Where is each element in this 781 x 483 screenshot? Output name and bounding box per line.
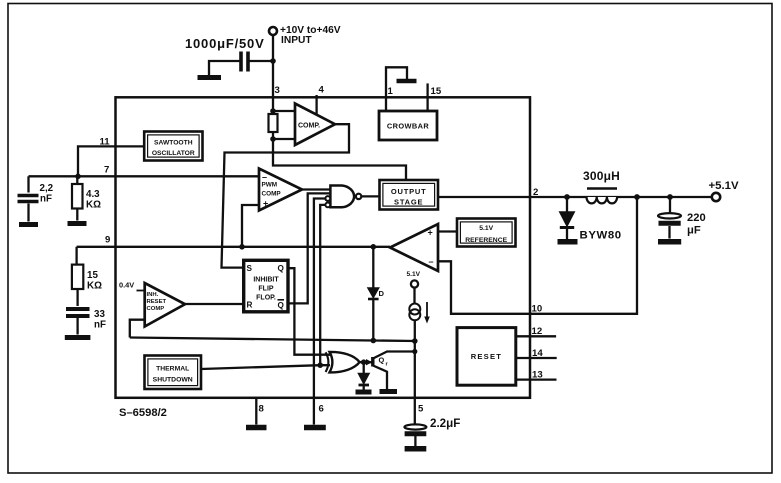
label INH RESET COMP [147,292,167,312]
IC boundary box [116,97,531,398]
output stage box (double border) [380,180,439,210]
svg-text:FLIP: FLIP [258,286,273,293]
svg-text:SAWTOOTH: SAWTOOTH [154,139,193,146]
wire pin 1 riser [386,67,407,111]
svg-text:D: D [379,289,385,298]
wire NAND input 3 to pin 6 ground rail [314,199,326,425]
wire pin 4 [315,95,317,114]
terminal +5.1V output [712,193,720,201]
transistor Q_r [369,361,373,363]
ground (2.2nF) [19,222,38,227]
wire COMP output to flip-flop S [222,124,350,267]
svg-text:–: – [262,172,267,182]
label 5.1V (current source) [407,271,421,278]
reset box [457,328,516,386]
svg-text:Q: Q [278,264,285,273]
svg-text:8: 8 [259,404,265,415]
pin 14 [532,348,543,359]
capacitor C3 2.2uF [404,424,426,429]
diode BYW80 [566,197,568,212]
terminal 5.1V internal [411,280,418,287]
label S-6598/2 [119,407,167,419]
svg-text:COMP.: COMP. [298,123,320,130]
node soft-start/current-source junction [412,338,418,344]
node BYW80 junction [564,194,570,200]
pin 7 [104,165,109,176]
svg-text:KΩ: KΩ [87,281,102,292]
label +10V to +46V INPUT [280,25,341,46]
svg-text:14: 14 [532,348,543,359]
pin 2 [533,187,538,198]
op-amp PWM COMP [259,169,302,211]
label THERMAL SHUTDOWN [153,366,193,384]
node error amp output / diode D junction [371,244,377,250]
resistor R1 4.3Kohm [76,176,78,184]
node pin3 upper junction [270,108,276,114]
svg-text:5.1V: 5.1V [479,225,493,232]
wire 5.1V to current source [413,288,415,305]
node diode D / soft-start junction [371,338,377,344]
resistor Rs (current sense on pin 3) [269,114,278,132]
inductor L1 300uH [587,187,617,190]
ground (pin 8) [246,425,267,431]
node Q_r collector junction [412,349,417,354]
svg-text:1: 1 [388,86,394,97]
ground (input cap) [198,75,222,80]
label SAWTOOTH OSCILLATOR [152,139,195,157]
pin 3 [275,85,280,96]
svg-text:INH.: INH. [147,292,159,298]
svg-text:+: + [428,227,433,237]
resistor R2 15Kohm [75,247,77,265]
label COMP [298,123,320,130]
thermal shutdown box (double border) [145,356,202,390]
svg-text:Q: Q [379,356,385,365]
svg-text:COMP: COMP [262,190,282,197]
value 300uH [583,169,620,183]
pin 15 [431,86,442,97]
svg-text:7: 7 [104,165,109,176]
svg-text:0.4V: 0.4V [119,281,134,290]
capacitor C2 33nF [76,289,78,306]
svg-text:5: 5 [418,404,424,415]
wire riser to PWM + input [242,205,259,247]
wire pin 13 [516,378,557,380]
svg-text:KΩ: KΩ [86,200,101,211]
svg-text:OSCILLATOR: OSCILLATOR [152,150,195,157]
wire 0.4V stub [137,290,145,292]
ground (BYW80) [558,239,578,245]
wire thermal shutdown output to OR input 2 [201,365,330,369]
value 220uF [687,212,706,237]
diode D [372,247,374,288]
current source I1 [409,304,420,315]
label RESET [471,352,502,361]
label 1000uF/50V [185,36,265,51]
capacitor C4 220uF [669,197,671,213]
ground (220uF) [658,239,681,245]
svg-text:2,2: 2,2 [40,183,54,194]
svg-text:PWM: PWM [262,182,278,189]
label S Q R Qbar [247,264,285,310]
ground (Q_r) [380,389,398,394]
svg-text:SHUTDOWN: SHUTDOWN [153,377,193,384]
svg-text:μF: μF [687,225,701,237]
svg-text:220: 220 [687,212,706,224]
wire output line pin 2 [438,196,712,198]
wire input terminal to pin 3 [272,35,274,114]
svg-text:11: 11 [100,137,111,148]
node input/cap junction [270,58,276,64]
value 2.2uF [430,417,460,430]
value 2,2nF [40,183,54,205]
pin 6 [319,404,324,415]
crowbar trigger bar [397,79,417,84]
svg-text:STAGE: STAGE [394,198,423,207]
wire NAND input 4 to thermal/OR node [320,205,325,365]
wire pin 15 stub [426,83,428,111]
crowbar box [379,111,437,140]
wire OR output [360,361,369,363]
svg-text:INPUT: INPUT [281,35,312,46]
pin 4 [319,85,325,96]
svg-text:4: 4 [319,85,325,96]
svg-text:2.2μF: 2.2μF [430,417,460,430]
svg-text:5.1V: 5.1V [407,271,421,278]
wire pin 11 [78,146,144,176]
svg-text:R: R [247,301,253,310]
label 5.1V REFERENCE [465,225,507,244]
wire error amp - to pin 10 feedback [438,197,637,314]
svg-text:10: 10 [532,304,543,315]
gate NAND (4-input) [330,186,354,208]
svg-text:THERMAL: THERMAL [156,366,189,373]
ground (pin 6) [304,425,326,431]
node PWM + riser junction [239,244,245,250]
svg-text:3: 3 [275,85,280,96]
pin 12 [532,326,543,337]
ground (2.2uF) [405,446,427,452]
svg-text:1000μF/50V: 1000μF/50V [185,36,265,51]
wire Rs bottom [272,132,274,139]
svg-text:S: S [247,264,253,273]
value 33nF [94,309,106,331]
svg-text:COMP: COMP [147,306,165,312]
sawtooth oscillator box (double border) [144,132,202,161]
NAND input 4 bubble [325,203,330,208]
wire current source to pin 5 [414,320,416,424]
value 4.3Kohm [86,189,101,211]
wire pin 12 [516,335,556,337]
svg-text:13: 13 [532,369,543,380]
wire PWM output to NAND input 1 [302,188,330,190]
svg-text:+: + [263,199,268,209]
label +5.1V [709,180,739,192]
label Q_r [379,356,389,368]
node OR output junction [361,359,367,365]
capacitor C1 2.2nF [27,176,29,192]
svg-text:nF: nF [94,320,106,331]
wire INH comp lower input to soft-start line [130,320,145,338]
wire INH comp output to flip-flop R [185,303,244,305]
diode (OR output clamp) [363,362,365,373]
wire pin 9 line to error amp output [77,246,390,248]
op-amp error comparator (points left) [390,224,438,271]
label PWM COMP [262,172,282,209]
pin 8 [259,404,265,415]
svg-text:33: 33 [94,309,105,320]
svg-text:9: 9 [105,235,110,246]
ground (clamp diode) [356,390,372,395]
NAND input 3 bubble [325,196,330,201]
svg-text:S–6598/2: S–6598/2 [119,407,167,419]
svg-text:Q: Q [278,301,285,310]
label 0.4V [119,281,134,290]
pin 13 [532,369,543,380]
reference box 5.1V REFERENCE (double border) [457,219,516,247]
value 15Kohm [87,270,102,292]
wire COMP - input [273,138,295,140]
wire NAND input 2 from flip-flop Qbar [288,193,330,303]
wire soft-start line (pin 5 net) [130,338,415,342]
pin 1 [388,86,394,97]
node 220uF junction [667,194,673,200]
capacitor 1000uF/50V [241,52,248,72]
gate OR (reset or) [330,352,360,373]
wire cap to input node [249,60,273,62]
op-amp COMP [295,104,335,146]
wire reference to error amp + [438,230,457,232]
label D [379,289,385,298]
label BYW80 [580,230,622,242]
svg-text:6: 6 [319,404,324,415]
svg-text:15: 15 [87,270,98,281]
op-amp INH RESET COMP [145,283,185,327]
wire pin 8 [255,398,257,425]
svg-text:4.3: 4.3 [86,189,100,200]
label error amp +/- [428,227,434,266]
svg-text:FLOP.: FLOP. [256,295,276,302]
svg-text:RESET: RESET [471,352,502,361]
svg-text:CROWBAR: CROWBAR [387,122,429,131]
wire Rs to output stage [273,139,406,180]
wire pin 7 / sawtooth to PWM - input [29,175,260,177]
svg-text:+5.1V: +5.1V [709,180,739,192]
svg-text:OUTPUT: OUTPUT [391,187,427,196]
svg-text:300μH: 300μH [583,169,620,183]
label CROWBAR [387,122,429,131]
label OUTPUT STAGE [391,187,427,207]
pin 9 [105,235,110,246]
svg-text:INHIBIT: INHIBIT [253,276,279,283]
svg-text:–: – [429,257,434,267]
wire COMP + input [273,110,295,112]
svg-text:REFERENCE: REFERENCE [465,237,507,244]
node feedback junction [634,194,640,200]
wire flip-flop Q to OR gate input 1 [288,268,330,355]
wire cap to ground [209,61,240,75]
node Rs bottom junction [270,136,276,142]
node thermal/NAND riser junction [317,362,323,368]
svg-text:2: 2 [533,187,538,198]
flip-flop U3 INHIBIT FLIP FLOP [244,260,288,312]
node pin7/pin11 junction [75,174,81,180]
svg-text:RESET: RESET [147,299,167,305]
svg-text:nF: nF [40,194,52,205]
NAND output bubble [356,194,361,199]
svg-text:BYW80: BYW80 [580,230,622,242]
pin 11 [100,137,111,148]
ground (33nF) [65,335,91,340]
svg-text:12: 12 [532,326,543,337]
input terminal +10V to +46V [269,27,277,35]
ground (4.3K) [68,221,87,226]
pin 5 [418,404,424,415]
wire pin 14 [516,357,557,359]
svg-text:15: 15 [431,86,442,97]
wire NAND output to output stage [361,195,379,197]
current arrow [426,302,428,317]
pin 10 [532,304,543,315]
label INHIBIT FLIP FLOP [253,276,279,301]
